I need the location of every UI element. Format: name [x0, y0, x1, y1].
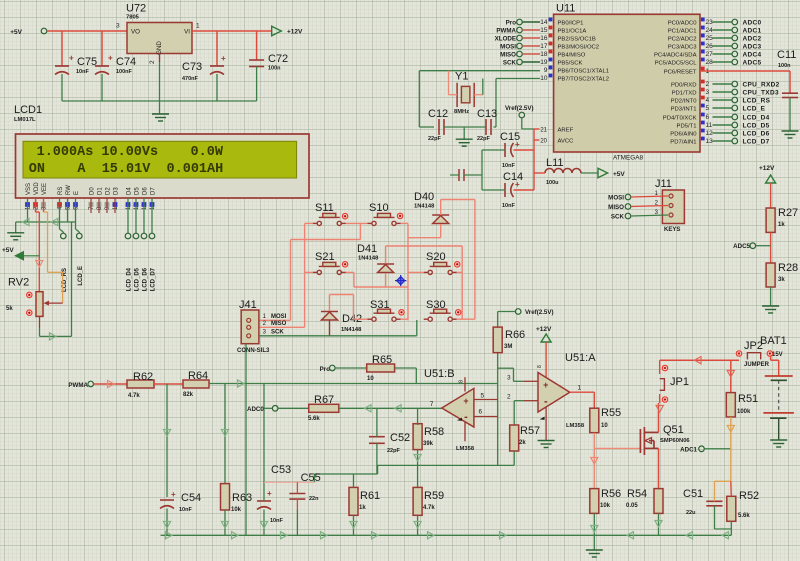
- power +5V left arrow: [16, 255, 39, 257]
- svg-text:CPU_RXD2: CPU_RXD2: [743, 82, 780, 89]
- wire D7 terminal LCD_D7: [151, 198, 153, 233]
- svg-text:S10: S10: [369, 202, 389, 214]
- svg-text:PC6/RESET: PC6/RESET: [664, 69, 697, 75]
- resistor R65 10: [367, 364, 395, 372]
- svg-text:21: 21: [540, 127, 547, 133]
- svg-text:R55: R55: [601, 407, 621, 419]
- svg-text:ATMEGA8: ATMEGA8: [613, 155, 644, 162]
- svg-text:BAT1: BAT1: [760, 335, 787, 347]
- wire: [658, 513, 660, 535]
- J41 pin 3 SCK: [247, 334, 251, 338]
- svg-text:5.6k: 5.6k: [308, 416, 320, 422]
- svg-text:C51: C51: [683, 488, 703, 500]
- svg-text:+: +: [463, 396, 468, 406]
- power +12V: [272, 26, 282, 35]
- ground: [770, 440, 787, 447]
- svg-text:R61: R61: [360, 490, 380, 502]
- svg-text:LCD_D4: LCD_D4: [743, 115, 770, 122]
- svg-text:5k: 5k: [6, 306, 13, 312]
- svg-text:VSS: VSS: [26, 183, 32, 195]
- svg-text:R63: R63: [232, 492, 252, 504]
- svg-text:5: 5: [481, 393, 485, 400]
- wire Q51 source to R54: [658, 448, 660, 488]
- svg-text:SCK: SCK: [611, 213, 625, 220]
- svg-text:S20: S20: [426, 251, 446, 263]
- ground: [782, 131, 799, 138]
- svg-text:2: 2: [706, 81, 710, 88]
- wire crystal right leg: [474, 94, 483, 96]
- wire: [715, 528, 732, 530]
- svg-text:LCD_RS: LCD_RS: [743, 98, 771, 105]
- svg-text:C54: C54: [181, 492, 201, 504]
- svg-text:PD1/TXD: PD1/TXD: [672, 90, 697, 96]
- ground: [538, 441, 555, 448]
- svg-text:R56: R56: [601, 488, 621, 500]
- wire VSS to ground: [27, 198, 29, 222]
- wire D0-D3 stubs: [90, 198, 92, 213]
- wire: [593, 513, 595, 550]
- resistor R61 1k: [349, 487, 358, 515]
- svg-text:PD3/INT1: PD3/INT1: [671, 106, 697, 112]
- svg-text:LM358: LM358: [456, 446, 475, 452]
- svg-text:CONN-SIL3: CONN-SIL3: [237, 348, 270, 354]
- wire D41 bottom: [385, 273, 387, 287]
- wire U51:A output: [570, 391, 595, 393]
- svg-text:2: 2: [149, 60, 156, 64]
- svg-text:D1: D1: [98, 187, 104, 195]
- svg-text:R65: R65: [372, 354, 392, 366]
- svg-text:CPU_TXD3: CPU_TXD3: [743, 90, 779, 97]
- svg-text:5: 5: [706, 105, 710, 112]
- svg-text:22pF: 22pF: [477, 136, 490, 142]
- resistor R62 4.7k: [127, 380, 154, 388]
- wire C15-C14 left rail: [481, 150, 483, 190]
- svg-text:AVCC: AVCC: [558, 138, 575, 144]
- J41 pin 2 MISO: [247, 325, 251, 329]
- terminal LCD_RS from U11: [713, 99, 733, 101]
- svg-text:PWMA: PWMA: [496, 27, 516, 34]
- capacitor C72: [256, 31, 258, 60]
- svg-text:22pF: 22pF: [428, 136, 441, 142]
- wire R65 output drop: [395, 367, 417, 369]
- svg-text:PB0/ICP1: PB0/ICP1: [558, 20, 584, 26]
- terminal ADC3 from U11: [713, 45, 733, 47]
- svg-text:22pF: 22pF: [387, 448, 400, 454]
- terminal LCD_E from U11: [713, 107, 733, 109]
- svg-text:C14: C14: [503, 171, 523, 183]
- svg-text:R54: R54: [627, 488, 647, 500]
- svg-text:10: 10: [601, 423, 608, 429]
- terminal ADC0 from U11: [713, 21, 733, 23]
- wire xtal gnd rail: [444, 126, 486, 128]
- svg-text:PC2/ADC2: PC2/ADC2: [668, 36, 697, 42]
- wire right riser to S30: [474, 200, 476, 320]
- wire top supply rail: [660, 359, 739, 361]
- svg-text:LCD_D5: LCD_D5: [135, 267, 141, 291]
- svg-text:+5V: +5V: [10, 29, 22, 36]
- svg-text:R58: R58: [424, 426, 444, 438]
- wire VDD +5V: [35, 198, 37, 212]
- wire: [192, 30, 271, 32]
- svg-text:6: 6: [479, 409, 483, 416]
- svg-text:10nF: 10nF: [76, 69, 89, 75]
- wire: [417, 465, 419, 487]
- svg-text:D40: D40: [414, 191, 434, 203]
- wire: [770, 287, 772, 306]
- svg-text:PD0/RXD: PD0/RXD: [671, 82, 697, 88]
- svg-text:28: 28: [706, 59, 714, 66]
- svg-text:SCK: SCK: [503, 59, 517, 66]
- svg-text:C53: C53: [271, 464, 291, 476]
- svg-text:100u: 100u: [546, 180, 559, 186]
- svg-text:D41: D41: [357, 243, 377, 255]
- svg-text:8: 8: [537, 365, 543, 368]
- wire: [513, 451, 515, 465]
- svg-text:D6: D6: [143, 187, 149, 195]
- wire D5 terminal LCD_D5: [135, 198, 137, 233]
- regulator U72 7805: [127, 23, 192, 54]
- terminal Vref(2.5V) opamp: [515, 309, 521, 315]
- wire U51:A minus power stub: [545, 408, 547, 441]
- wire D6 terminal LCD_D6: [143, 198, 145, 233]
- capacitor small bypass: [459, 169, 464, 181]
- svg-text:14: 14: [540, 19, 548, 26]
- svg-text:PB2/SS/OC1B: PB2/SS/OC1B: [558, 36, 596, 42]
- svg-text:8: 8: [459, 380, 465, 383]
- svg-text:S21: S21: [315, 251, 335, 263]
- svg-text:S11: S11: [315, 202, 334, 214]
- svg-text:U11: U11: [556, 3, 575, 15]
- svg-text:Vref(2.5V): Vref(2.5V): [525, 309, 554, 316]
- svg-text:VEE: VEE: [42, 183, 48, 195]
- wire feedback right rail: [497, 353, 499, 466]
- wire R55 bottom: [593, 433, 595, 489]
- terminal ADC2 from U11: [713, 37, 733, 39]
- wire U72 pin2: [159, 54, 161, 63]
- wire R67 to U51:B out: [339, 407, 442, 409]
- svg-text:1: 1: [578, 385, 582, 392]
- svg-text:R51: R51: [738, 393, 758, 405]
- wire PB7 XTAL2: [496, 78, 540, 80]
- terminal ADC1 from U11: [713, 29, 733, 31]
- wire: [498, 311, 516, 313]
- resistor R52 5.6k: [727, 496, 736, 521]
- svg-text:AREF: AREF: [558, 127, 574, 133]
- svg-text:PC1/ADC1: PC1/ADC1: [668, 28, 697, 34]
- svg-text:+: +: [515, 140, 520, 149]
- wire: [94, 383, 128, 385]
- svg-text:4.7k: 4.7k: [128, 393, 140, 399]
- svg-text:1N4148: 1N4148: [358, 256, 379, 262]
- wire S11-S10 bridge: [346, 222, 368, 224]
- svg-text:26: 26: [706, 43, 714, 50]
- svg-text:SMP60N06: SMP60N06: [660, 438, 690, 444]
- wire: [376, 408, 378, 436]
- svg-text:+12V: +12V: [759, 165, 775, 172]
- svg-text:C13: C13: [477, 108, 497, 120]
- svg-text:PB7/TOSC2/XTAL2: PB7/TOSC2/XTAL2: [558, 76, 610, 82]
- svg-text:3k: 3k: [778, 277, 785, 283]
- svg-text:RV2: RV2: [8, 277, 29, 289]
- wire: [278, 407, 309, 409]
- wire ground drop from J41: [245, 344, 247, 536]
- svg-text:0.05: 0.05: [626, 503, 638, 509]
- svg-text:10k: 10k: [600, 503, 611, 509]
- svg-text:U72: U72: [126, 3, 146, 15]
- svg-text:KEYS: KEYS: [664, 227, 680, 233]
- svg-text:LCD_E: LCD_E: [743, 106, 766, 113]
- terminal LCD_D5 from U11: [713, 124, 733, 126]
- resistor R67 5.6k: [309, 404, 339, 412]
- svg-text:MOSI: MOSI: [608, 194, 624, 201]
- svg-text:3: 3: [706, 89, 710, 96]
- svg-text:PB5/SCK: PB5/SCK: [558, 60, 583, 66]
- wire D42 top to S31: [329, 295, 331, 312]
- wire: [789, 98, 791, 132]
- svg-text:R52: R52: [739, 490, 759, 502]
- svg-text:22u: 22u: [686, 510, 695, 516]
- svg-text:Y1: Y1: [455, 71, 468, 83]
- svg-text:+: +: [267, 489, 272, 498]
- svg-text:16: 16: [540, 35, 548, 42]
- svg-text:LCD_D7: LCD_D7: [151, 267, 157, 291]
- svg-text:13: 13: [706, 138, 714, 145]
- wire: [545, 342, 547, 378]
- svg-text:C52: C52: [390, 432, 410, 444]
- svg-text:PB6/TOSC1/XTAL1: PB6/TOSC1/XTAL1: [558, 68, 610, 74]
- svg-text:+: +: [221, 54, 226, 63]
- svg-text:PB3/MOSI/OC2: PB3/MOSI/OC2: [558, 44, 600, 50]
- ground: [463, 127, 465, 139]
- wire: [47, 30, 127, 32]
- terminal LCD_D7 from U11: [713, 140, 733, 142]
- svg-text:17: 17: [540, 43, 548, 50]
- resistor R63 10k: [221, 484, 230, 510]
- svg-text:3M: 3M: [504, 344, 512, 350]
- wire: [778, 418, 780, 440]
- wire: [770, 183, 772, 208]
- terminal LCD_D4 from U11: [713, 116, 733, 118]
- svg-text:R64: R64: [188, 370, 208, 382]
- svg-text:-: -: [464, 411, 468, 423]
- wire: [154, 383, 183, 385]
- svg-text:L11: L11: [546, 157, 564, 169]
- wire ground bus: [62, 100, 257, 102]
- svg-text:+12V: +12V: [536, 326, 552, 333]
- svg-text:10nF: 10nF: [502, 163, 515, 169]
- terminal CPU_TXD3 from U11: [713, 91, 733, 93]
- wire S30 taps: [457, 318, 475, 320]
- svg-text:1.000As 10.00Vs 0.0W: 1.000As 10.00Vs 0.0W: [37, 145, 224, 160]
- resistor R59 4.7k: [413, 487, 422, 515]
- svg-text:PC4/ADC4/SDA: PC4/ADC4/SDA: [654, 52, 697, 58]
- svg-text:D4: D4: [127, 187, 133, 195]
- wire J41 MOSI riser: [259, 319, 291, 321]
- wire: [353, 474, 355, 487]
- svg-text:1k: 1k: [359, 505, 366, 511]
- svg-text:9: 9: [544, 67, 548, 74]
- LCD pin state squares: [25, 202, 30, 207]
- ground: [159, 101, 161, 114]
- svg-text:ADC1: ADC1: [680, 447, 697, 454]
- terminal ADC4 from U11: [713, 53, 733, 55]
- svg-text:MOSI: MOSI: [271, 314, 287, 320]
- wire SCK line: [259, 335, 417, 337]
- svg-text:100n: 100n: [268, 66, 281, 72]
- svg-text:R27: R27: [778, 207, 798, 219]
- svg-text:SCK: SCK: [271, 330, 284, 336]
- wire: [224, 510, 226, 535]
- svg-text:PD4/T0/XCK: PD4/T0/XCK: [663, 115, 697, 121]
- wire: [714, 481, 716, 501]
- svg-text:GND: GND: [156, 41, 163, 55]
- ground: [762, 306, 779, 313]
- svg-text:MOSI: MOSI: [500, 43, 516, 50]
- svg-text:+5V: +5V: [2, 247, 14, 254]
- svg-text:11: 11: [706, 122, 713, 129]
- svg-text:MISO: MISO: [500, 51, 516, 58]
- svg-text:100nF: 100nF: [116, 69, 133, 75]
- capacitor C75: [61, 31, 63, 66]
- svg-text:18: 18: [540, 51, 548, 58]
- wire pot return riser: [71, 222, 73, 336]
- svg-text:4: 4: [706, 97, 710, 104]
- wire feedback bottom rail: [378, 464, 515, 466]
- svg-text:PD6/AIN0: PD6/AIN0: [670, 131, 697, 137]
- wire U51:B power stubs: [464, 377, 466, 391]
- svg-text:8MHz: 8MHz: [454, 109, 469, 115]
- wire C53-C55 top link: [264, 481, 314, 483]
- wire: [482, 149, 505, 151]
- svg-text:PD2/INT0: PD2/INT0: [671, 98, 698, 104]
- svg-text:LCD_D6: LCD_D6: [743, 131, 770, 138]
- svg-text:3: 3: [507, 375, 511, 382]
- svg-text:10nF: 10nF: [179, 507, 192, 513]
- svg-text:E: E: [74, 191, 80, 195]
- svg-text:4.7k: 4.7k: [423, 505, 435, 511]
- wire PB6 XTAL1: [419, 70, 540, 72]
- svg-text:24: 24: [706, 27, 714, 34]
- svg-text:PWMA: PWMA: [68, 382, 88, 389]
- svg-text:PD7/AIN1: PD7/AIN1: [670, 139, 696, 145]
- wire: [417, 408, 419, 425]
- svg-text:82k: 82k: [183, 392, 194, 398]
- svg-text:LCD_D5: LCD_D5: [743, 123, 770, 130]
- resistor R58 39k: [413, 424, 422, 450]
- wire S11 left drop to J41 MISO: [305, 222, 313, 224]
- wire S21 left tap: [305, 271, 313, 273]
- svg-text:D0: D0: [90, 187, 96, 195]
- svg-text:VI: VI: [184, 29, 190, 36]
- svg-text:J41: J41: [239, 299, 257, 311]
- svg-text:RW: RW: [66, 185, 72, 195]
- svg-text:10nF: 10nF: [502, 203, 515, 209]
- svg-text:R28: R28: [778, 262, 798, 274]
- svg-text:LM358: LM358: [566, 423, 585, 429]
- svg-text:100k: 100k: [737, 409, 751, 415]
- svg-text:ADC4: ADC4: [743, 52, 762, 59]
- svg-text:Pro: Pro: [320, 366, 331, 373]
- ground: [586, 550, 603, 557]
- wire S21 right drop: [346, 271, 354, 273]
- svg-text:MISO: MISO: [271, 321, 287, 327]
- svg-text:15V: 15V: [772, 352, 783, 358]
- svg-text:1: 1: [196, 23, 200, 30]
- wire D42 bottom: [329, 320, 331, 336]
- svg-text:Pro: Pro: [506, 19, 517, 26]
- resistor R55 10: [590, 408, 599, 433]
- svg-text:Vref(2.5V): Vref(2.5V): [505, 105, 534, 112]
- svg-text:PB4/MISO: PB4/MISO: [558, 52, 586, 58]
- ground: [15, 222, 17, 233]
- J41 pin 1 MOSI: [247, 318, 251, 322]
- wire: [482, 189, 505, 191]
- svg-text:470nF: 470nF: [182, 76, 199, 82]
- wire D40 top: [440, 200, 442, 216]
- svg-text:D5: D5: [135, 187, 141, 195]
- svg-text:2: 2: [507, 393, 511, 400]
- wire R66 branch to pin3: [498, 367, 514, 369]
- svg-text:+12V: +12V: [287, 29, 303, 36]
- svg-text:LCD_D7: LCD_D7: [743, 139, 770, 146]
- svg-text:+: +: [515, 180, 520, 189]
- svg-text:D3: D3: [114, 187, 120, 195]
- svg-text:LCD_E: LCD_E: [78, 266, 84, 286]
- svg-text:LCD1: LCD1: [14, 104, 42, 116]
- resistor R54 0.05: [654, 489, 663, 514]
- svg-text:PB1/OC1A: PB1/OC1A: [558, 28, 587, 34]
- svg-text:100n: 100n: [778, 63, 791, 69]
- svg-text:PC5/ADC5/SCL: PC5/ADC5/SCL: [655, 60, 698, 66]
- wire R51 bottom: [730, 417, 732, 481]
- svg-text:ADC0: ADC0: [247, 406, 264, 413]
- svg-text:C72: C72: [268, 53, 288, 65]
- wire: [335, 367, 367, 369]
- svg-text:10: 10: [367, 376, 374, 382]
- svg-text:ADC5: ADC5: [733, 243, 750, 250]
- svg-text:XLODE: XLODE: [495, 35, 516, 42]
- resistor R51 100k: [726, 393, 735, 417]
- wire gate line: [594, 447, 640, 449]
- svg-text:+: +: [69, 54, 74, 63]
- wire RC output: [209, 383, 498, 385]
- svg-text:D7: D7: [151, 187, 157, 195]
- terminal LCD_D6 from U11: [713, 132, 733, 134]
- svg-text:ON A 15.01V 0.001AH: ON A 15.01V 0.001AH: [29, 162, 223, 177]
- wire R51 riser: [730, 360, 732, 392]
- probe marker: [395, 275, 406, 286]
- resistor R28 3k: [766, 263, 775, 287]
- svg-text:LCD_D4: LCD_D4: [127, 267, 133, 291]
- wire VEE to RV2 loop: [43, 198, 45, 212]
- svg-text:MISO: MISO: [608, 204, 624, 211]
- svg-text:JUMPER: JUMPER: [744, 362, 770, 368]
- wire AREF AVCC: [534, 128, 540, 130]
- svg-text:2k: 2k: [519, 440, 526, 446]
- wire: [296, 499, 298, 510]
- svg-text:3: 3: [116, 23, 120, 30]
- svg-text:23: 23: [706, 19, 714, 26]
- wire R63 drop: [224, 384, 226, 484]
- resistor R57 2k: [510, 425, 519, 451]
- wire RW to ground bus: [67, 198, 69, 222]
- svg-text:C75: C75: [77, 56, 97, 68]
- svg-text:1k: 1k: [778, 222, 785, 228]
- wire sense node rail: [715, 480, 731, 482]
- wire Vref to AREF: [521, 118, 523, 129]
- svg-text:20: 20: [540, 138, 547, 144]
- svg-text:22n: 22n: [309, 496, 319, 502]
